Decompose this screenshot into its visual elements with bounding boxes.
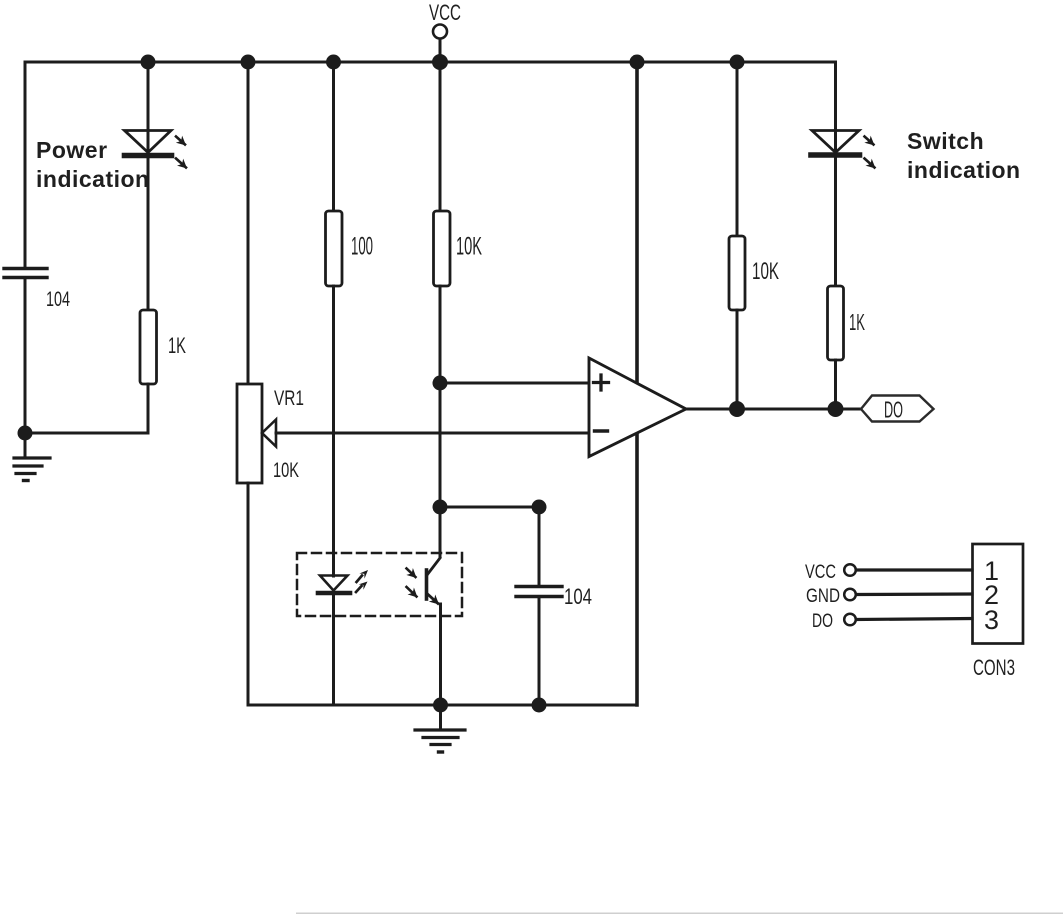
node B junction (collector / C2): [433, 500, 448, 515]
wire R1 to node A: [439, 286, 442, 383]
junction (C2, ground rail): [532, 698, 547, 713]
svg-text:DO: DO: [884, 397, 903, 423]
wire VCC to R4: [736, 62, 739, 237]
junction (R4, output): [729, 401, 745, 417]
junction (R5, output, DO): [828, 401, 844, 417]
wire VR1 wiper to comparator inverting input: [276, 432, 589, 435]
terminal circle GND: [844, 589, 856, 601]
wire DO pin 3: [856, 619, 972, 620]
optocoupler U2 dashed outline: [297, 553, 462, 616]
wire R5 to output node: [834, 360, 837, 409]
wire VCC rail right drop to LED D2: [834, 62, 837, 152]
wire comparator supply (VCC to GND rail, behind U1): [635, 62, 639, 705]
svg-text:indication: indication: [36, 166, 150, 192]
wire node A to comparator non-inverting input: [440, 382, 589, 385]
wire D2 to R5: [834, 157, 837, 287]
svg-text:10K: 10K: [273, 459, 299, 482]
wire R2 to ground rail: [147, 384, 150, 433]
op-amp U1 comparator: [589, 358, 686, 457]
node A junction: [433, 376, 448, 391]
svg-text:10K: 10K: [752, 258, 779, 285]
junction (emitter, ground rail): [433, 698, 448, 713]
ground (middle): [415, 705, 465, 752]
resistor R5 1K: [828, 286, 844, 360]
svg-text:DO: DO: [812, 611, 833, 632]
power terminal VCC: [433, 25, 447, 63]
wire left drop to C1: [24, 62, 27, 268]
wire VCC pin 1: [856, 568, 972, 571]
svg-text:GND: GND: [806, 586, 840, 607]
wire opto LED cathode to ground rail: [332, 593, 335, 705]
capacitor C2 104: [516, 587, 562, 597]
capacitor C1 104: [4, 269, 47, 278]
svg-text:Power: Power: [36, 137, 108, 163]
wire VCC to VR1: [247, 62, 250, 385]
potentiometer VR1 10K: [237, 384, 276, 483]
wire ground node to R2: [25, 432, 148, 435]
connector CON3 body: [973, 544, 1024, 644]
wire VCC to R3: [332, 62, 335, 212]
wire C2 bottom to ground rail: [538, 597, 541, 705]
svg-text:1K: 1K: [168, 333, 186, 358]
wire comparator output: [686, 408, 861, 411]
svg-text:VR1: VR1: [274, 387, 304, 410]
resistor R3 100: [326, 211, 343, 286]
port flag DO: [861, 396, 934, 422]
terminal circle DO: [844, 614, 856, 626]
wire node B to C2: [440, 506, 539, 509]
LED D2 switch indication: [811, 131, 875, 168]
svg-text:104: 104: [46, 288, 70, 311]
wire C1 to ground node: [24, 278, 27, 433]
svg-text:indication: indication: [907, 157, 1021, 183]
wire D1 to R2: [147, 157, 150, 311]
svg-text:CON3: CON3: [973, 655, 1015, 680]
LED D1 power indication: [125, 131, 187, 168]
wire VR1 bottom to ground rail: [247, 483, 250, 705]
svg-text:Switch: Switch: [907, 128, 984, 154]
svg-text:100: 100: [351, 233, 373, 261]
junction node (left ground): [18, 426, 33, 441]
wire GND pin 2: [856, 592, 972, 596]
wire node A down to phototransistor collector: [439, 383, 442, 557]
wire VCC to LED D1: [147, 62, 150, 152]
wire VCC to R1: [439, 62, 442, 212]
node C2 top junction: [532, 500, 547, 515]
wire R3 to opto LED: [332, 286, 335, 576]
wire R4 to output node: [736, 310, 739, 409]
phototransistor (inside U2): [407, 558, 441, 604]
resistor R4 10K: [729, 236, 745, 310]
wire node B to C2 top plate: [538, 507, 541, 586]
separator line (bottom): [296, 913, 1063, 915]
resistor R1 10K: [434, 211, 451, 286]
wire ground rail: [248, 704, 637, 707]
svg-text:3: 3: [984, 605, 999, 635]
terminal circle VCC: [844, 564, 856, 576]
ground (left): [14, 433, 50, 481]
svg-text:1K: 1K: [849, 309, 865, 335]
resistor R2 1K: [140, 310, 157, 384]
svg-text:10K: 10K: [456, 233, 482, 261]
svg-text:104: 104: [564, 584, 592, 609]
opto emitter LED (inside U2): [318, 570, 368, 593]
svg-text:VCC: VCC: [805, 562, 836, 583]
junction dots on VCC rail: [141, 54, 745, 70]
wire phototransistor emitter to ground rail: [439, 604, 442, 705]
svg-text:VCC: VCC: [429, 0, 461, 25]
wire VCC top rail: [25, 61, 835, 64]
